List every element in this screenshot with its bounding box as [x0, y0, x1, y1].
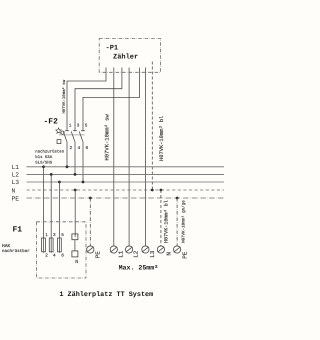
svg-text:HAK: HAK: [2, 243, 11, 249]
svg-text:6: 6: [86, 146, 89, 151]
svg-text:5: 5: [85, 124, 88, 129]
HAK N link wire: [74, 240, 76, 251]
HAK N lower clamp square: [72, 251, 78, 257]
wire L3-in: P1 stub to F2 pole3: [83, 68, 140, 131]
svg-text:-P1: -P1: [106, 45, 119, 53]
wire F2 pole2 to bus L2: [74, 143, 76, 175]
F2 square symbol: [57, 140, 61, 144]
svg-text:3: 3: [53, 233, 56, 238]
svg-text:L1: L1: [12, 164, 20, 171]
svg-text:1: 1: [69, 124, 72, 129]
svg-text:L2: L2: [12, 172, 20, 179]
fuse F1 body 3: [58, 238, 62, 252]
junction F2 pole2 / L2: [74, 173, 77, 176]
svg-text:L1: L1: [118, 250, 125, 258]
wire L3-out: P1 stub to terminal L3: [144, 68, 146, 246]
svg-text:-F2: -F2: [44, 118, 59, 127]
svg-text:PE: PE: [181, 251, 188, 259]
F2 linkage bar: [59, 134, 85, 136]
terminal PE left: [87, 246, 94, 253]
terminal PE right: [174, 246, 181, 253]
HAK N drop wire: [74, 190, 76, 237]
svg-text:Zähler: Zähler: [113, 53, 138, 62]
wire L1-in: P1 stub to F2 pole1: [67, 68, 106, 131]
svg-text:2: 2: [70, 146, 73, 151]
svg-text:H07VK-10mm² bl: H07VK-10mm² bl: [163, 200, 169, 243]
fuse F1 body 1: [42, 238, 46, 252]
svg-text:F1: F1: [13, 226, 23, 235]
junction fuse2 / L2: [50, 173, 53, 176]
junction PE left / PE bus: [89, 197, 92, 200]
terminal L1: [110, 246, 117, 253]
F2 star symbol: [56, 128, 62, 133]
svg-text:N: N: [75, 259, 78, 265]
wire L2-out: P1 stub to terminal L2: [128, 68, 130, 246]
fuse F1 wire 3: [58, 182, 60, 253]
junction fuse1 / L1: [42, 165, 45, 168]
F2 pole 3 contact+blade: [79, 131, 85, 143]
F2 release circle: [61, 131, 64, 134]
meter P1 dash-dot enclosure: [99, 39, 160, 73]
PE out drop (dash-dot): [176, 198, 178, 246]
svg-text:SLS/SHS: SLS/SHS: [35, 161, 52, 166]
svg-text:N: N: [165, 252, 172, 256]
PE earth drop (dash-dot): [89, 198, 91, 246]
wire L1-out: P1 stub straight down to terminal L1: [113, 68, 115, 246]
junction PE right / PE bus: [176, 197, 179, 200]
fuse F1 wire 1: [43, 167, 45, 253]
fuse F1 wire 2: [50, 174, 52, 252]
svg-text:N: N: [12, 187, 16, 194]
wire L2-in: P1 stub to F2 pole2: [75, 68, 122, 131]
HAK N upper clamp square: [72, 234, 78, 240]
svg-text:bis 63A: bis 63A: [35, 155, 52, 160]
svg-text:PE: PE: [12, 195, 20, 202]
svg-text:1 Zählerplatz TT System: 1 Zählerplatz TT System: [59, 291, 153, 299]
F2 pole 1 contact+blade: [63, 131, 69, 143]
N out drop (dashed): [160, 190, 162, 246]
svg-text:4: 4: [78, 146, 81, 151]
terminal L3: [142, 246, 149, 253]
F2 pole 2 contact+blade: [71, 131, 77, 143]
junction HAK N drop / N bus: [74, 189, 77, 192]
wire N meter drop (dashed): [151, 62, 153, 191]
svg-text:nachzurüsten: nachzurüsten: [35, 150, 64, 155]
terminal N: [157, 246, 164, 253]
junction meter N / N bus: [151, 189, 154, 192]
svg-text:L2: L2: [133, 250, 140, 258]
svg-text:PE: PE: [95, 251, 102, 259]
svg-text:4: 4: [53, 254, 56, 259]
svg-text:L3: L3: [149, 250, 156, 258]
terminal L2: [126, 246, 133, 253]
svg-text:H07VK-10mm² sw: H07VK-10mm² sw: [62, 79, 67, 113]
svg-text:3: 3: [77, 124, 80, 129]
fuse F1 body 2: [49, 238, 53, 252]
svg-text:6: 6: [61, 254, 64, 259]
junction N out / N bus: [160, 189, 163, 192]
svg-text:Max. 25mm²: Max. 25mm²: [119, 264, 159, 271]
svg-text:H07VK-10mm² sw: H07VK-10mm² sw: [104, 114, 111, 161]
svg-text:5: 5: [61, 233, 64, 238]
junction F2 pole1 / L1: [66, 165, 69, 168]
wire F2 pole3 to bus L3: [82, 143, 84, 182]
junction fuse3 / L3: [58, 181, 61, 184]
svg-text:L3: L3: [12, 179, 20, 186]
svg-text:2: 2: [45, 254, 48, 259]
svg-text:1: 1: [45, 233, 48, 238]
junction F2 pole3 / L3: [82, 181, 85, 184]
HAK F1 dash-dot enclosure: [37, 222, 87, 278]
wire F2 pole1 to bus L1: [66, 143, 68, 167]
svg-text:H07VK-10mm² bl: H07VK-10mm² bl: [159, 116, 165, 161]
